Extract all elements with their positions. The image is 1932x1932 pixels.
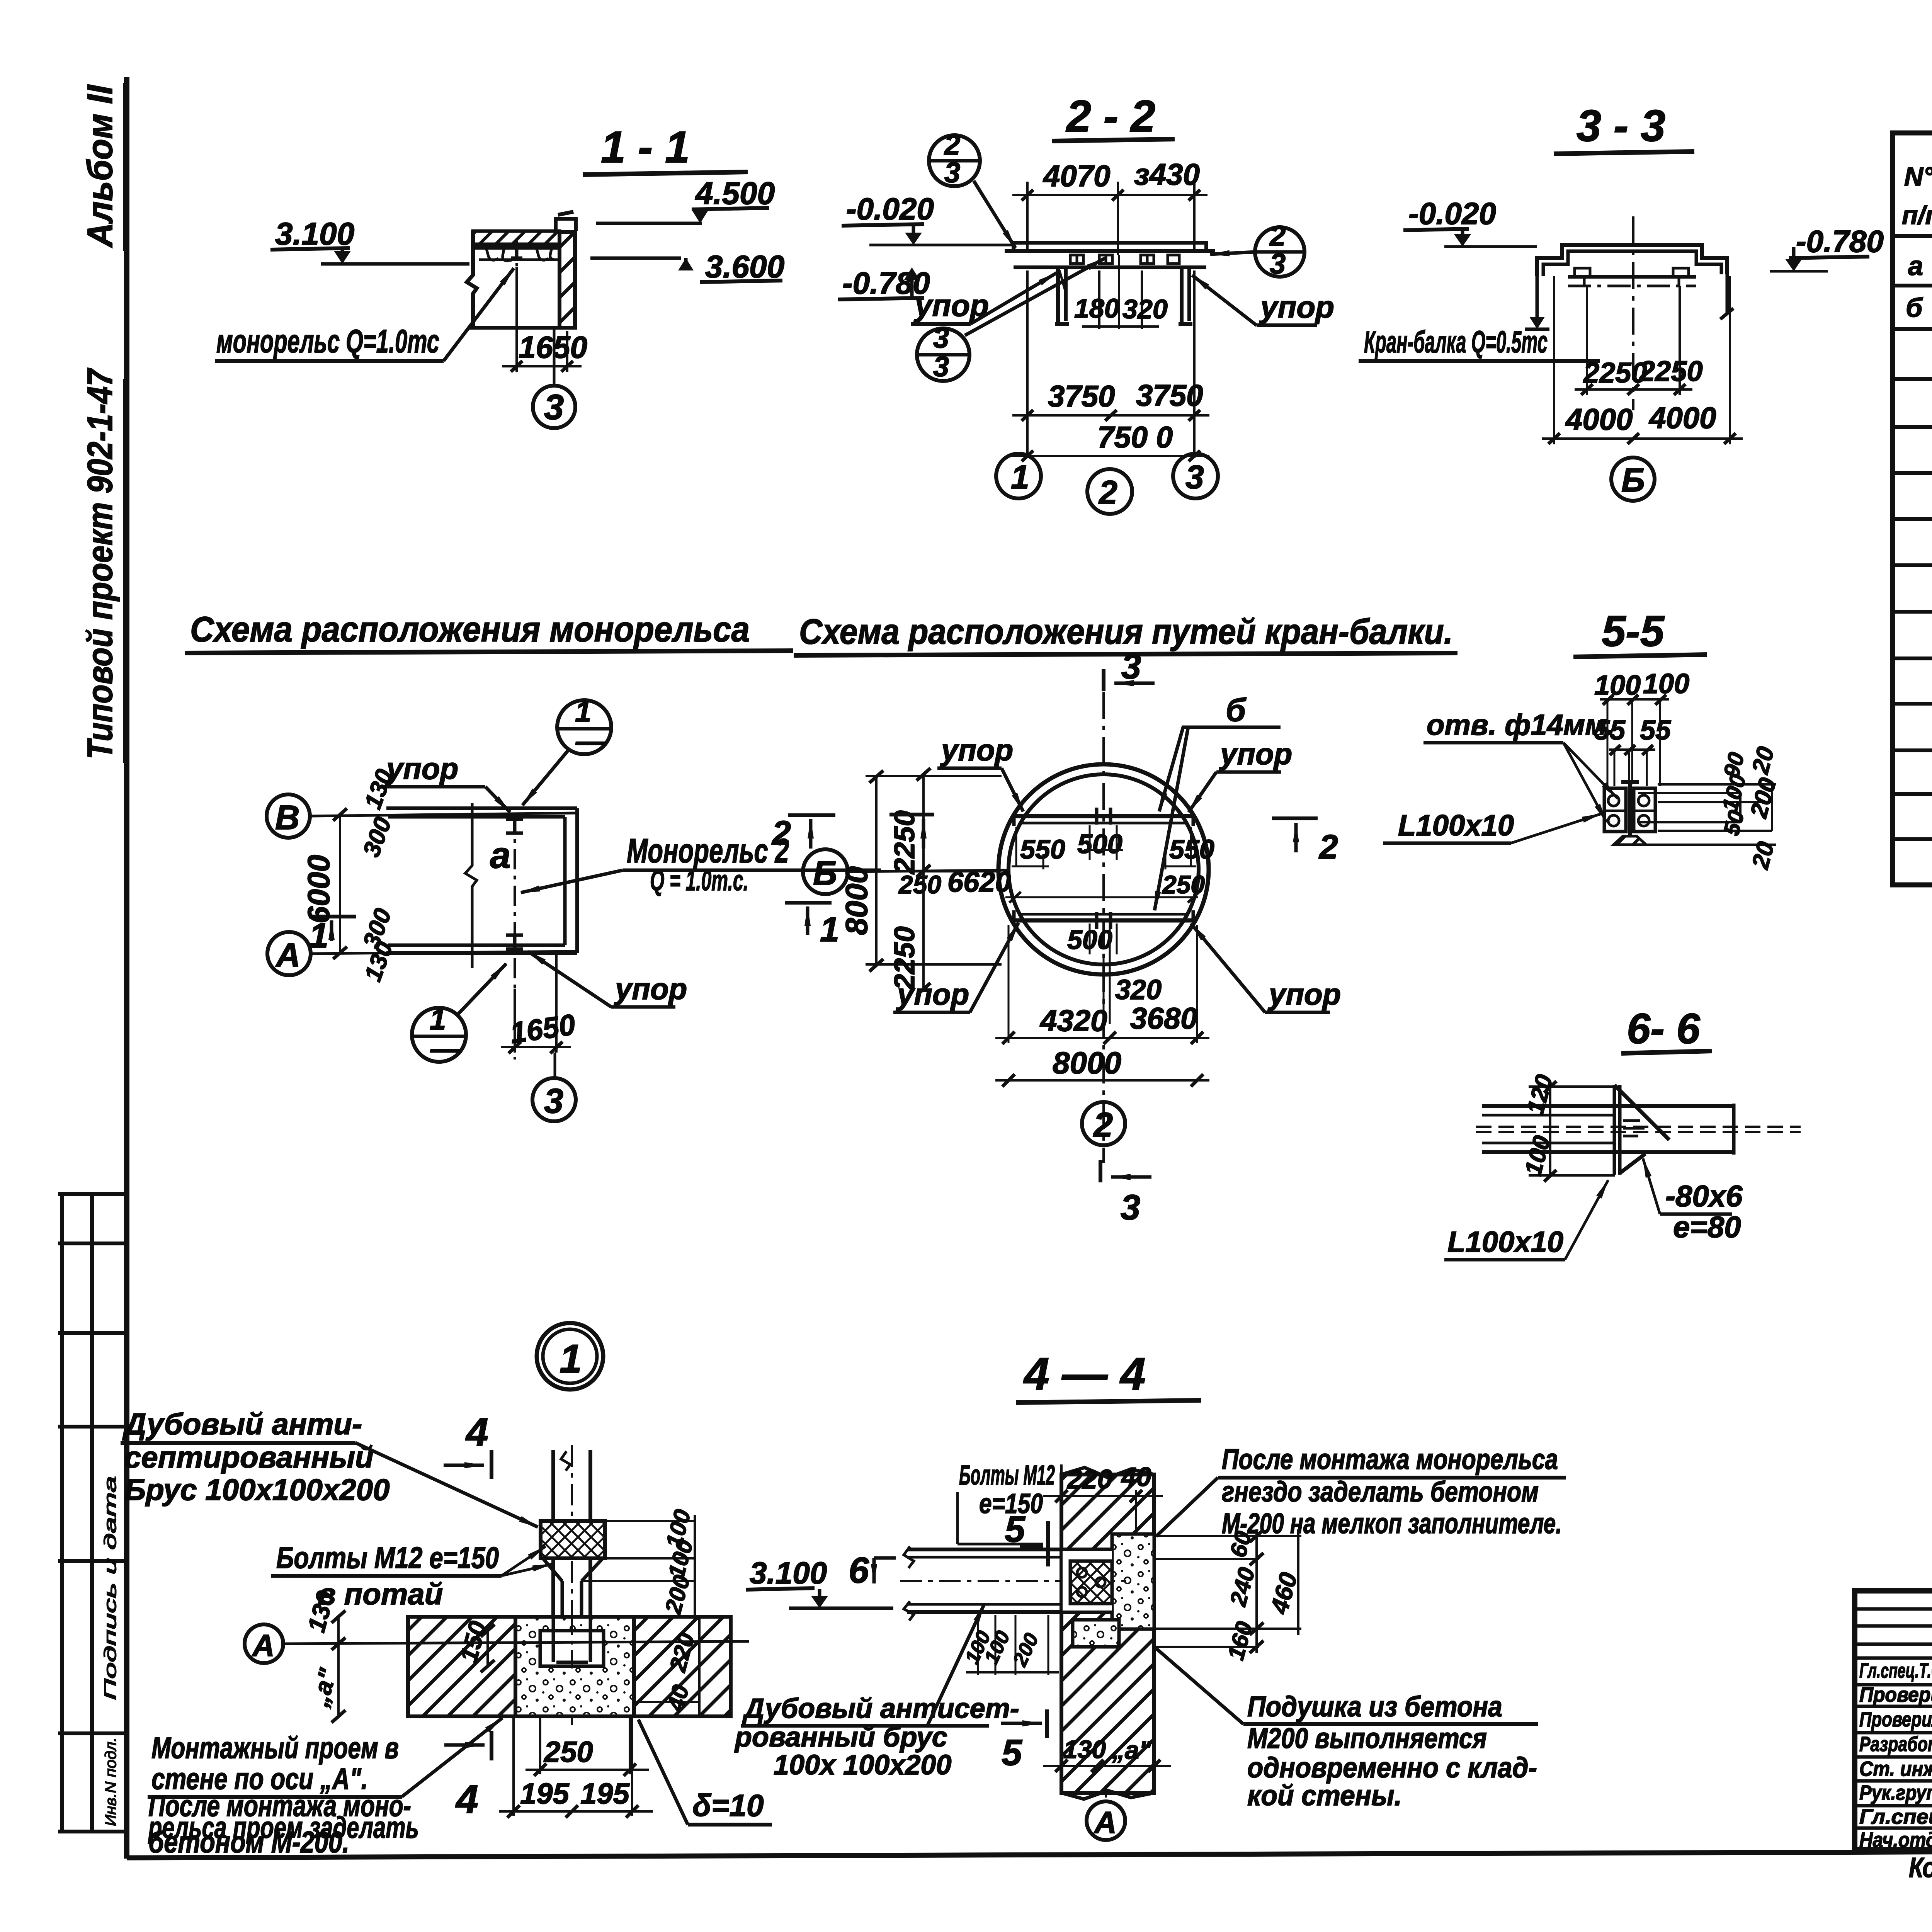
brus in pocket — [1070, 1561, 1112, 1604]
svg-text:Дубовый антисет-: Дубовый антисет- — [742, 1693, 1019, 1724]
svg-text:1 - 1: 1 - 1 — [601, 122, 690, 172]
monorail beam — [907, 1548, 1113, 1551]
SCHEME-MONORAIL — [185, 610, 1009, 1121]
label подушка — [1247, 1690, 1537, 1811]
svg-text:3: 3 — [933, 322, 949, 354]
row a — [1908, 241, 1932, 281]
svg-text:монорельс Q=1.0тс: монорельс Q=1.0тс — [216, 323, 439, 359]
svg-text:М200 выполняется: М200 выполняется — [1247, 1722, 1487, 1754]
svg-text:3.100: 3.100 — [750, 1556, 827, 1590]
SECTION-5-5 — [1383, 607, 1781, 872]
dim 8000 — [995, 1079, 1209, 1082]
svg-text:септированный: септированный — [124, 1440, 374, 1474]
level -0.020 — [846, 192, 934, 226]
name rows text — [1859, 1658, 1932, 1852]
table outer border — [1893, 133, 1932, 885]
name rows — [1855, 1658, 1932, 1828]
wood block — [541, 1521, 605, 1558]
svg-text:3: 3 — [1270, 248, 1286, 280]
svg-text:Гл.спец: Гл.спец — [1859, 1805, 1932, 1828]
svg-text:После монтажа монорельса: После монтажа монорельса — [1222, 1443, 1558, 1475]
dim 4320 3680 — [1008, 925, 1010, 1043]
slab hatched bar — [473, 231, 560, 244]
svg-text:N°: N° — [1904, 162, 1932, 191]
beam top lines — [1482, 1104, 1735, 1108]
row lines — [1893, 234, 1932, 238]
concrete pocket below — [1073, 1620, 1119, 1647]
tank wall plan: top double line — [386, 806, 577, 810]
svg-text:Болты М12 е=150: Болты М12 е=150 — [276, 1541, 499, 1575]
svg-text:В: В — [275, 798, 300, 837]
dim 55 55 — [1594, 715, 1671, 746]
section mark 2 left of crane plan — [788, 813, 835, 817]
dim 1650 — [514, 989, 516, 1053]
bottom frame border line — [127, 1849, 1932, 1858]
SECTION-2-2 — [838, 92, 1334, 514]
title 3-3 — [1577, 101, 1665, 151]
label дубовый брус — [122, 1407, 389, 1507]
svg-text:3 - 3: 3 - 3 — [1577, 101, 1665, 151]
svg-text:упор: упор — [1259, 290, 1334, 324]
wall hatched — [1061, 1475, 1154, 1793]
bottom pad hatched — [1614, 836, 1646, 845]
svg-text:6: 6 — [849, 1550, 869, 1591]
header texts — [1902, 155, 1932, 231]
right wall hatched — [560, 232, 575, 328]
axis circle 3 bottom — [554, 1053, 556, 1078]
crane rail top — [1012, 814, 1196, 818]
svg-text:3: 3 — [1121, 1188, 1140, 1227]
DETAIL-1 — [121, 1323, 1019, 1859]
level mark 4.500 — [695, 176, 775, 211]
svg-text:Монтажный проем в: Монтажный проем в — [151, 1731, 399, 1765]
svg-text:А: А — [1094, 1805, 1117, 1840]
title 5-5 — [1602, 607, 1665, 655]
svg-text:5: 5 — [1002, 1732, 1022, 1773]
svg-text:180: 180 — [1074, 293, 1119, 323]
svg-text:e=80: e=80 — [1673, 1210, 1741, 1244]
tank wall plan: bottom double line — [388, 944, 565, 947]
svg-text:250: 250 — [543, 1736, 593, 1769]
TITLE-BLOCK — [1855, 1591, 1932, 1883]
SECTION-3-3 — [1359, 101, 1884, 501]
small dims 130 300 top — [359, 766, 398, 813]
svg-text:отв. ф14мм.: отв. ф14мм. — [1427, 709, 1615, 742]
hanger lines to dims — [1586, 286, 1588, 395]
section mark 2 left — [889, 813, 934, 816]
beam top plate — [1014, 243, 1206, 250]
top dim 220 40 — [1060, 1464, 1063, 1499]
svg-text:Подушка из бетона: Подушка из бетона — [1247, 1690, 1502, 1723]
wall cut line with break — [465, 803, 477, 968]
dim 100 100 — [1594, 668, 1689, 701]
axis circle 3 — [553, 329, 556, 386]
svg-text:Провери: Провери — [1859, 1683, 1932, 1706]
svg-text:4: 4 — [455, 1777, 478, 1822]
extension lines — [1607, 699, 1660, 786]
section mark 1 left — [309, 915, 356, 918]
STEEL-TABLE — [1893, 54, 1932, 885]
svg-text:6- 6: 6- 6 — [1627, 1005, 1700, 1053]
svg-text:5-5: 5-5 — [1602, 607, 1665, 655]
svg-text:4 — 4: 4 — 4 — [1023, 1349, 1146, 1400]
svg-text:а: а — [1908, 251, 1923, 281]
level -0.780 — [1796, 224, 1884, 259]
svg-text:100х 100х200: 100х 100х200 — [774, 1750, 951, 1781]
svg-text:Проверил: Проверил — [1859, 1708, 1932, 1731]
svg-text:гнездо заделать бетоном: гнездо заделать бетоном — [1222, 1476, 1539, 1508]
axis circle 2 — [1087, 469, 1132, 514]
svg-text:3: 3 — [1121, 647, 1141, 686]
scheme title — [190, 610, 750, 649]
title 4-4 — [1023, 1349, 1146, 1400]
svg-text:упор: упор — [940, 733, 1013, 767]
svg-text:1: 1 — [575, 696, 591, 728]
label upor right — [1259, 290, 1334, 324]
svg-text:Нач.отд.: Нач.отд. — [1859, 1828, 1932, 1852]
crane cap profile inner — [1543, 251, 1721, 276]
svg-text:3.100: 3.100 — [275, 216, 354, 252]
svg-text:2: 2 — [1098, 474, 1117, 511]
svg-text:Брус 100х100х200: Брус 100х100х200 — [124, 1473, 389, 1507]
svg-text:Б: Б — [813, 854, 837, 892]
svg-text:упор: упор — [1219, 737, 1292, 771]
SECTION-3-3 — [0, 0, 0, 0]
concrete pocket — [515, 1617, 634, 1716]
row b — [1906, 291, 1932, 330]
svg-text:Типовой проект 902-1-47: Типовой проект 902-1-47 — [80, 368, 120, 759]
tank outer circle — [998, 764, 1209, 975]
inner dims row1 — [1020, 829, 1214, 864]
inner dims row2 — [898, 866, 1205, 899]
bottom dim 130 a — [1043, 1765, 1171, 1767]
small dims 300 130 bottom — [358, 905, 396, 952]
svg-text:Б: Б — [1621, 462, 1645, 499]
dim 150 — [486, 1631, 489, 1666]
level 3.100 — [750, 1556, 827, 1590]
tank inner circle — [1009, 774, 1199, 964]
right dims 60 240 160 460 — [1155, 1536, 1301, 1647]
svg-text:δ=10: δ=10 — [692, 1788, 764, 1823]
left dim 120 100 — [1529, 1085, 1615, 1088]
svg-text:40: 40 — [1121, 1462, 1151, 1492]
detail circle 1 top — [557, 700, 611, 754]
svg-text:упор: упор — [1267, 977, 1341, 1011]
svg-text:2: 2 — [1269, 220, 1286, 252]
svg-text:1: 1 — [820, 910, 839, 949]
parapet cap — [556, 219, 576, 231]
svg-text:2: 2 — [944, 129, 960, 161]
svg-text:Копировал: Копировал — [1909, 1852, 1932, 1883]
svg-text:Инв.N подл.: Инв.N подл. — [102, 1737, 119, 1826]
wall strip hatched — [408, 1617, 515, 1716]
svg-text:2250: 2250 — [1638, 355, 1703, 387]
svg-text:4000: 4000 — [1648, 401, 1716, 435]
monorail I-beam mark bottom — [506, 935, 523, 949]
svg-text:Разработ: Разработ — [1859, 1733, 1932, 1756]
label upor top-right — [1219, 737, 1292, 771]
axis circle 2 — [1082, 1102, 1125, 1145]
svg-text:—: — — [430, 1032, 460, 1065]
svg-text:2: 2 — [1093, 1106, 1113, 1145]
label Монорельс 2 — [627, 832, 789, 870]
scheme title — [799, 612, 1453, 651]
rail dashed centre — [1476, 1127, 1801, 1132]
right dims 220 40 — [698, 1617, 701, 1716]
label болты М12 — [276, 1541, 499, 1611]
pocket hole — [540, 1631, 604, 1666]
svg-text:3: 3 — [544, 1082, 563, 1121]
centre axis — [1632, 216, 1634, 410]
svg-text:2250: 2250 — [1583, 357, 1647, 389]
label delta10 — [692, 1788, 764, 1823]
right upor column — [1179, 267, 1192, 324]
dim 6000 — [339, 815, 341, 953]
svg-text:1: 1 — [560, 1337, 582, 1381]
SECTION-6-6 — [1444, 1005, 1801, 1260]
svg-text:Гл.спец.Т.О: Гл.спец.Т.О — [1859, 1659, 1932, 1682]
bottom dim 250 — [540, 1716, 630, 1774]
label -80x6 e=80 — [1665, 1179, 1743, 1213]
rails lower inner line — [1020, 913, 1186, 916]
svg-text:б: б — [1906, 293, 1923, 323]
svg-text:320: 320 — [1115, 975, 1162, 1005]
left upor column — [1055, 267, 1069, 324]
rail beam under cap — [1568, 275, 1696, 279]
section mark 5 bottom — [1001, 1722, 1042, 1725]
monorail I-beam symbol — [510, 245, 523, 258]
axis circle 1 — [996, 454, 1041, 498]
wall top break — [1061, 1468, 1154, 1478]
svg-text:100: 100 — [1643, 668, 1689, 699]
svg-text:3680: 3680 — [1130, 1001, 1197, 1035]
svg-text:бетоном М-200.: бетоном М-200. — [148, 1825, 349, 1859]
svg-text:Рук.груп.: Рук.груп. — [1859, 1781, 1932, 1804]
svg-text:2 - 2: 2 - 2 — [1066, 92, 1155, 141]
svg-text:220: 220 — [1066, 1464, 1112, 1494]
right dim columns — [1740, 784, 1772, 831]
section mark 5 top — [1005, 1509, 1026, 1550]
svg-text:-0.020: -0.020 — [1408, 196, 1496, 231]
svg-text:500: 500 — [1077, 829, 1122, 859]
svg-text:Альбом II: Альбом II — [80, 84, 120, 248]
section mark 3 top — [1102, 669, 1105, 691]
crane cap profile outer — [1537, 245, 1727, 276]
svg-text:3: 3 — [944, 156, 960, 189]
svg-text:3750: 3750 — [1048, 379, 1115, 413]
SCHEME-CRANE — [794, 612, 1458, 1227]
SECTION-6-6 — [0, 0, 0, 0]
axis circle Б — [1611, 457, 1655, 501]
svg-text:1: 1 — [430, 1003, 446, 1036]
axis circle B — [267, 794, 310, 838]
svg-text:100: 100 — [1594, 670, 1641, 701]
label монорельс — [216, 323, 439, 359]
svg-text:130: 130 — [1063, 1735, 1106, 1764]
svg-text:2250: 2250 — [888, 810, 920, 875]
SECTION-4-4 — [900, 1349, 1566, 1840]
svg-text:1: 1 — [1011, 459, 1029, 496]
dim 4070 3430 — [1026, 182, 1029, 250]
title 2-2 — [1066, 92, 1155, 141]
svg-text:Дубовый анти-: Дубовый анти- — [122, 1407, 362, 1441]
svg-text:п/п: п/п — [1902, 201, 1932, 230]
rail clip details — [1070, 255, 1083, 264]
left dims 2250 2250 — [922, 774, 925, 989]
monorail I-beam mark top — [506, 819, 523, 833]
small top rows — [1855, 1609, 1932, 1644]
title 1-1 — [601, 122, 690, 172]
centre dash-dot of monorail — [515, 240, 518, 369]
label b with leaders — [1226, 692, 1247, 728]
svg-text:4070: 4070 — [1043, 159, 1111, 193]
svg-text:4.500: 4.500 — [695, 176, 775, 211]
svg-text:-80х6: -80х6 — [1665, 1179, 1743, 1213]
section mark 4 bottom — [444, 1743, 485, 1747]
svg-text:-0.020: -0.020 — [846, 192, 934, 226]
svg-text:А: А — [275, 936, 301, 974]
svg-text:320: 320 — [1122, 294, 1168, 324]
svg-text:8000: 8000 — [1053, 1046, 1121, 1080]
svg-text:4320: 4320 — [1039, 1003, 1107, 1037]
section mark 1 right — [785, 901, 832, 905]
svg-text:кой стены.: кой стены. — [1247, 1779, 1402, 1811]
dim 2250 2250 — [1575, 388, 1692, 391]
svg-text:Ст. инж.: Ст. инж. — [1859, 1757, 1932, 1781]
level mark 3.100 — [275, 216, 354, 252]
inner dims row3 — [1067, 925, 1112, 955]
wall left edge with break — [467, 231, 477, 328]
bottom annotations — [1909, 1845, 1932, 1883]
axis circle A — [1105, 1785, 1107, 1798]
label upor top-left — [940, 733, 1013, 767]
svg-text:8000: 8000 — [839, 866, 874, 935]
detail circle 1 double — [537, 1323, 603, 1389]
crane rail bottom — [1012, 918, 1196, 923]
left edge drop with arrow — [1536, 276, 1539, 319]
svg-text:Подпись и дата: Подпись и дата — [101, 1476, 120, 1700]
svg-text:L100х10: L100х10 — [1447, 1226, 1563, 1259]
svg-text:„а": „а" — [1112, 1736, 1151, 1764]
svg-text:L100х10: L100х10 — [1398, 809, 1514, 842]
label upor bottom-left — [896, 977, 969, 1011]
label L100x10 — [1398, 809, 1514, 842]
svg-text:з430: з430 — [1134, 157, 1200, 191]
left attribute table box — [58, 1194, 124, 1832]
level -0.780 — [842, 266, 930, 300]
svg-text:-0.780: -0.780 — [1796, 224, 1884, 259]
section mark 6 — [849, 1550, 869, 1591]
beam bottom lines — [1482, 1142, 1614, 1145]
wall bottom break — [1061, 1791, 1154, 1799]
svg-text:б: б — [1226, 692, 1247, 728]
label upor bottom-right — [1267, 977, 1341, 1011]
left frame border line — [124, 77, 129, 1859]
svg-text:55: 55 — [1640, 715, 1671, 746]
svg-text:750 0: 750 0 — [1097, 420, 1173, 454]
suspension rod — [553, 1450, 590, 1521]
svg-text:одновременно с клад-: одновременно с клад- — [1247, 1752, 1537, 1784]
svg-text:Кран-балка Q=0.5тс: Кран-балка Q=0.5тс — [1364, 325, 1548, 359]
label upor top — [385, 752, 458, 786]
section mark 3 bottom — [1099, 1160, 1102, 1182]
dim 8000 vertical — [875, 777, 878, 965]
detail circle 2/3 top — [929, 135, 980, 186]
right end vertical — [1732, 1104, 1736, 1155]
svg-text:Схема расположения путей кран-: Схема расположения путей кран-балки. — [799, 612, 1453, 651]
svg-text:3: 3 — [933, 350, 949, 383]
lines to right dims — [1614, 784, 1776, 845]
axis circle A — [267, 932, 311, 975]
bottom dims 100 100 200 — [978, 1615, 1048, 1675]
svg-text:4: 4 — [465, 1410, 488, 1455]
dim 4000 4000 — [1553, 276, 1555, 444]
letter a — [490, 835, 510, 876]
svg-text:4000: 4000 — [1565, 402, 1633, 436]
bolted assembly body — [1621, 782, 1639, 836]
right edge drop with tick — [1726, 274, 1729, 314]
detail circle 2/3 right — [1255, 227, 1304, 277]
axis circle A — [245, 1624, 283, 1663]
svg-text:2: 2 — [771, 814, 791, 852]
right dims 100 100 200 — [583, 1521, 695, 1581]
ceiling lines with anchor hooks — [473, 246, 560, 250]
dim 320 — [1115, 975, 1162, 1005]
svg-text:Схема расположения монорельса: Схема расположения монорельса — [190, 610, 750, 649]
detail circle 3/3 — [917, 328, 969, 381]
svg-text:А: А — [252, 1628, 275, 1663]
level -0.020 — [1408, 196, 1496, 231]
svg-text:упор: упор — [614, 972, 687, 1006]
svg-text:—: — — [575, 725, 605, 758]
svg-text:3: 3 — [544, 388, 564, 427]
section mark 2 right — [1272, 816, 1318, 820]
label монтажный проем — [151, 1731, 399, 1796]
label кран-балка — [1364, 325, 1548, 359]
svg-text:195: 195 — [580, 1777, 630, 1810]
SECTION-1-1 — [215, 122, 784, 428]
funnel below block — [543, 1558, 603, 1617]
svg-text:2250: 2250 — [888, 926, 920, 991]
title 6-6 — [1627, 1005, 1700, 1053]
bottom dim 195 195 — [514, 1716, 632, 1816]
label upor bottom — [614, 972, 687, 1006]
detail circle 1 bottom — [412, 1008, 466, 1062]
label L100x10 bottom — [1447, 1226, 1563, 1259]
outer box — [1855, 1591, 1932, 1850]
svg-text:Болты М12: Болты М12 — [959, 1460, 1055, 1491]
NOTES — [0, 0, 0, 0]
svg-text:3750: 3750 — [1136, 378, 1203, 412]
svg-text:6000: 6000 — [301, 855, 336, 923]
level mark 3.600 — [705, 249, 784, 284]
vertical sheet name text — [80, 83, 124, 1826]
dim 3750 3750 — [1026, 270, 1029, 458]
svg-text:195: 195 — [520, 1777, 570, 1810]
concrete pocket right — [1112, 1534, 1154, 1629]
label после монтажа — [1222, 1443, 1562, 1539]
gusset plate — [1614, 1085, 1620, 1175]
label после монтажа — [148, 1789, 419, 1859]
SECTION-4-4 — [0, 0, 0, 0]
left dim 130 a — [337, 1617, 340, 1716]
svg-text:упор: упор — [913, 288, 989, 323]
svg-text:2: 2 — [1318, 828, 1338, 866]
label upor left — [913, 288, 989, 323]
label отв ф14мм — [1427, 709, 1615, 742]
dim 180 320 — [1098, 270, 1100, 329]
svg-text:а: а — [490, 835, 510, 876]
